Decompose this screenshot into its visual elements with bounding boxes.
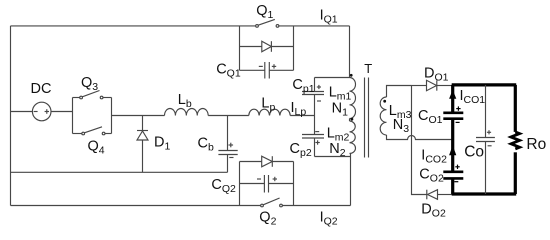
wire primary bottom drop <box>350 154 352 206</box>
svg-text:Cp1: Cp1 <box>292 77 314 95</box>
wire thick output top <box>452 83 517 86</box>
wire Q3Q4 left rail <box>72 98 74 134</box>
diode D1 <box>137 131 148 141</box>
wire DC to Q3Q4 rail <box>51 111 73 113</box>
capacitor CO1 <box>443 113 463 119</box>
node A drop line <box>412 86 427 195</box>
svg-text:CO1: CO1 <box>418 108 443 126</box>
wire Q4 branch <box>73 133 112 135</box>
wire thick CO1 rail upper <box>451 85 454 113</box>
wire Cp branch top <box>315 77 350 79</box>
wire Q2 diode branch <box>240 161 294 163</box>
wire Q3 branch <box>73 97 112 99</box>
diode Q1 body <box>262 41 272 52</box>
svg-text:IQ2: IQ2 <box>320 209 338 227</box>
svg-text:CQ2: CQ2 <box>211 177 236 195</box>
svg-text:Cp2: Cp2 <box>290 141 312 159</box>
wire top rail <box>11 25 256 27</box>
wire return mid-left <box>11 171 228 173</box>
svg-text:Ro: Ro <box>526 136 546 153</box>
wire primary top drop <box>349 26 351 78</box>
svg-text:Lb: Lb <box>178 92 192 110</box>
wire Lp to node ILp <box>290 115 314 117</box>
capacitor Cp1 <box>302 85 324 101</box>
diode DO1 <box>427 80 453 90</box>
capacitor CQ2 <box>240 175 294 193</box>
wire secondary top to DO1 <box>412 85 427 87</box>
diode Q2 body <box>262 156 273 167</box>
wire Q1 block left rail <box>239 26 241 70</box>
wire Cp branch bottom <box>315 156 351 158</box>
wire thick right rail upper <box>514 85 517 132</box>
capacitor CO <box>476 85 495 194</box>
svg-text:DO2: DO2 <box>421 202 446 220</box>
node Cp branch vertical <box>314 78 316 157</box>
svg-text:D1: D1 <box>154 134 170 152</box>
dot winding1 <box>350 74 353 77</box>
wire Q1 diode branch <box>240 46 294 48</box>
svg-text:Q1: Q1 <box>256 3 273 21</box>
arrow ICO1 <box>449 90 456 99</box>
svg-text:IQ1: IQ1 <box>320 7 338 25</box>
wire Q1 block right rail <box>293 26 295 70</box>
wire Lb to Lp <box>208 115 249 117</box>
winding Lm3 N3 secondary <box>380 97 386 135</box>
transformer core T <box>365 78 369 158</box>
svg-text:ICO1: ICO1 <box>460 88 486 106</box>
wire Q3Q4 right rail <box>111 98 113 134</box>
svg-text:Lp: Lp <box>261 96 275 114</box>
wire primary join arcs <box>349 119 351 122</box>
wire thick right rail lower <box>514 152 517 194</box>
DC source V1 <box>32 102 51 121</box>
dot winding2 <box>351 118 354 121</box>
svg-text:Q4: Q4 <box>88 139 105 157</box>
switch Q2 <box>261 198 283 207</box>
svg-text:Q2: Q2 <box>259 209 276 227</box>
svg-text:DC: DC <box>31 81 52 97</box>
wire left rail <box>10 26 12 206</box>
svg-text:CO2: CO2 <box>419 167 444 185</box>
svg-text:Cb: Cb <box>198 136 214 154</box>
resistor RO <box>511 132 520 149</box>
node Cb branch <box>227 116 229 173</box>
switch Q3 <box>80 91 103 99</box>
svg-text:ILp: ILp <box>291 100 307 118</box>
switch Q1 <box>256 19 279 27</box>
capacitor CQ1 <box>240 62 294 79</box>
winding Lm1 N1 primary top <box>350 78 356 119</box>
wire secondary bottom with crossover hop <box>387 135 453 140</box>
winding Lm2 N2 primary bottom <box>350 121 356 154</box>
wire Q2 block right rail <box>293 162 295 206</box>
wire thick output bottom <box>452 192 517 195</box>
wire top rail right of Q1 <box>279 25 350 27</box>
svg-text:Q3: Q3 <box>81 75 98 93</box>
svg-text:DO1: DO1 <box>424 66 449 84</box>
wire DC to switch block <box>11 111 33 113</box>
capacitor Cb <box>218 143 237 158</box>
node D1 branch <box>142 116 144 173</box>
wire Q2 block left rail <box>239 162 241 206</box>
capacitor Cp2 <box>302 132 324 145</box>
capacitor CO2 <box>443 172 463 179</box>
wire thick CO2 rail lower <box>451 178 454 194</box>
svg-text:N2: N2 <box>329 141 345 159</box>
svg-text:N1: N1 <box>332 100 348 118</box>
wire thick CO rail mid <box>451 119 454 172</box>
inductor Lp <box>249 109 290 115</box>
dot winding3 <box>383 100 386 103</box>
arrow ICO2 <box>449 145 456 155</box>
inductor Lb <box>165 109 209 116</box>
wire bottom rail right of Q2 <box>282 205 350 207</box>
wire bottom rail <box>11 205 261 207</box>
svg-text:T: T <box>364 61 372 76</box>
svg-text:ICO2: ICO2 <box>421 148 447 166</box>
wire secondary top stub <box>387 86 412 98</box>
diode DO2 <box>427 190 452 200</box>
wire Q3Q4 to node Lb <box>112 115 165 117</box>
svg-text:CQ1: CQ1 <box>216 61 241 79</box>
svg-text:Co: Co <box>464 143 484 160</box>
switch Q4 <box>82 127 105 135</box>
